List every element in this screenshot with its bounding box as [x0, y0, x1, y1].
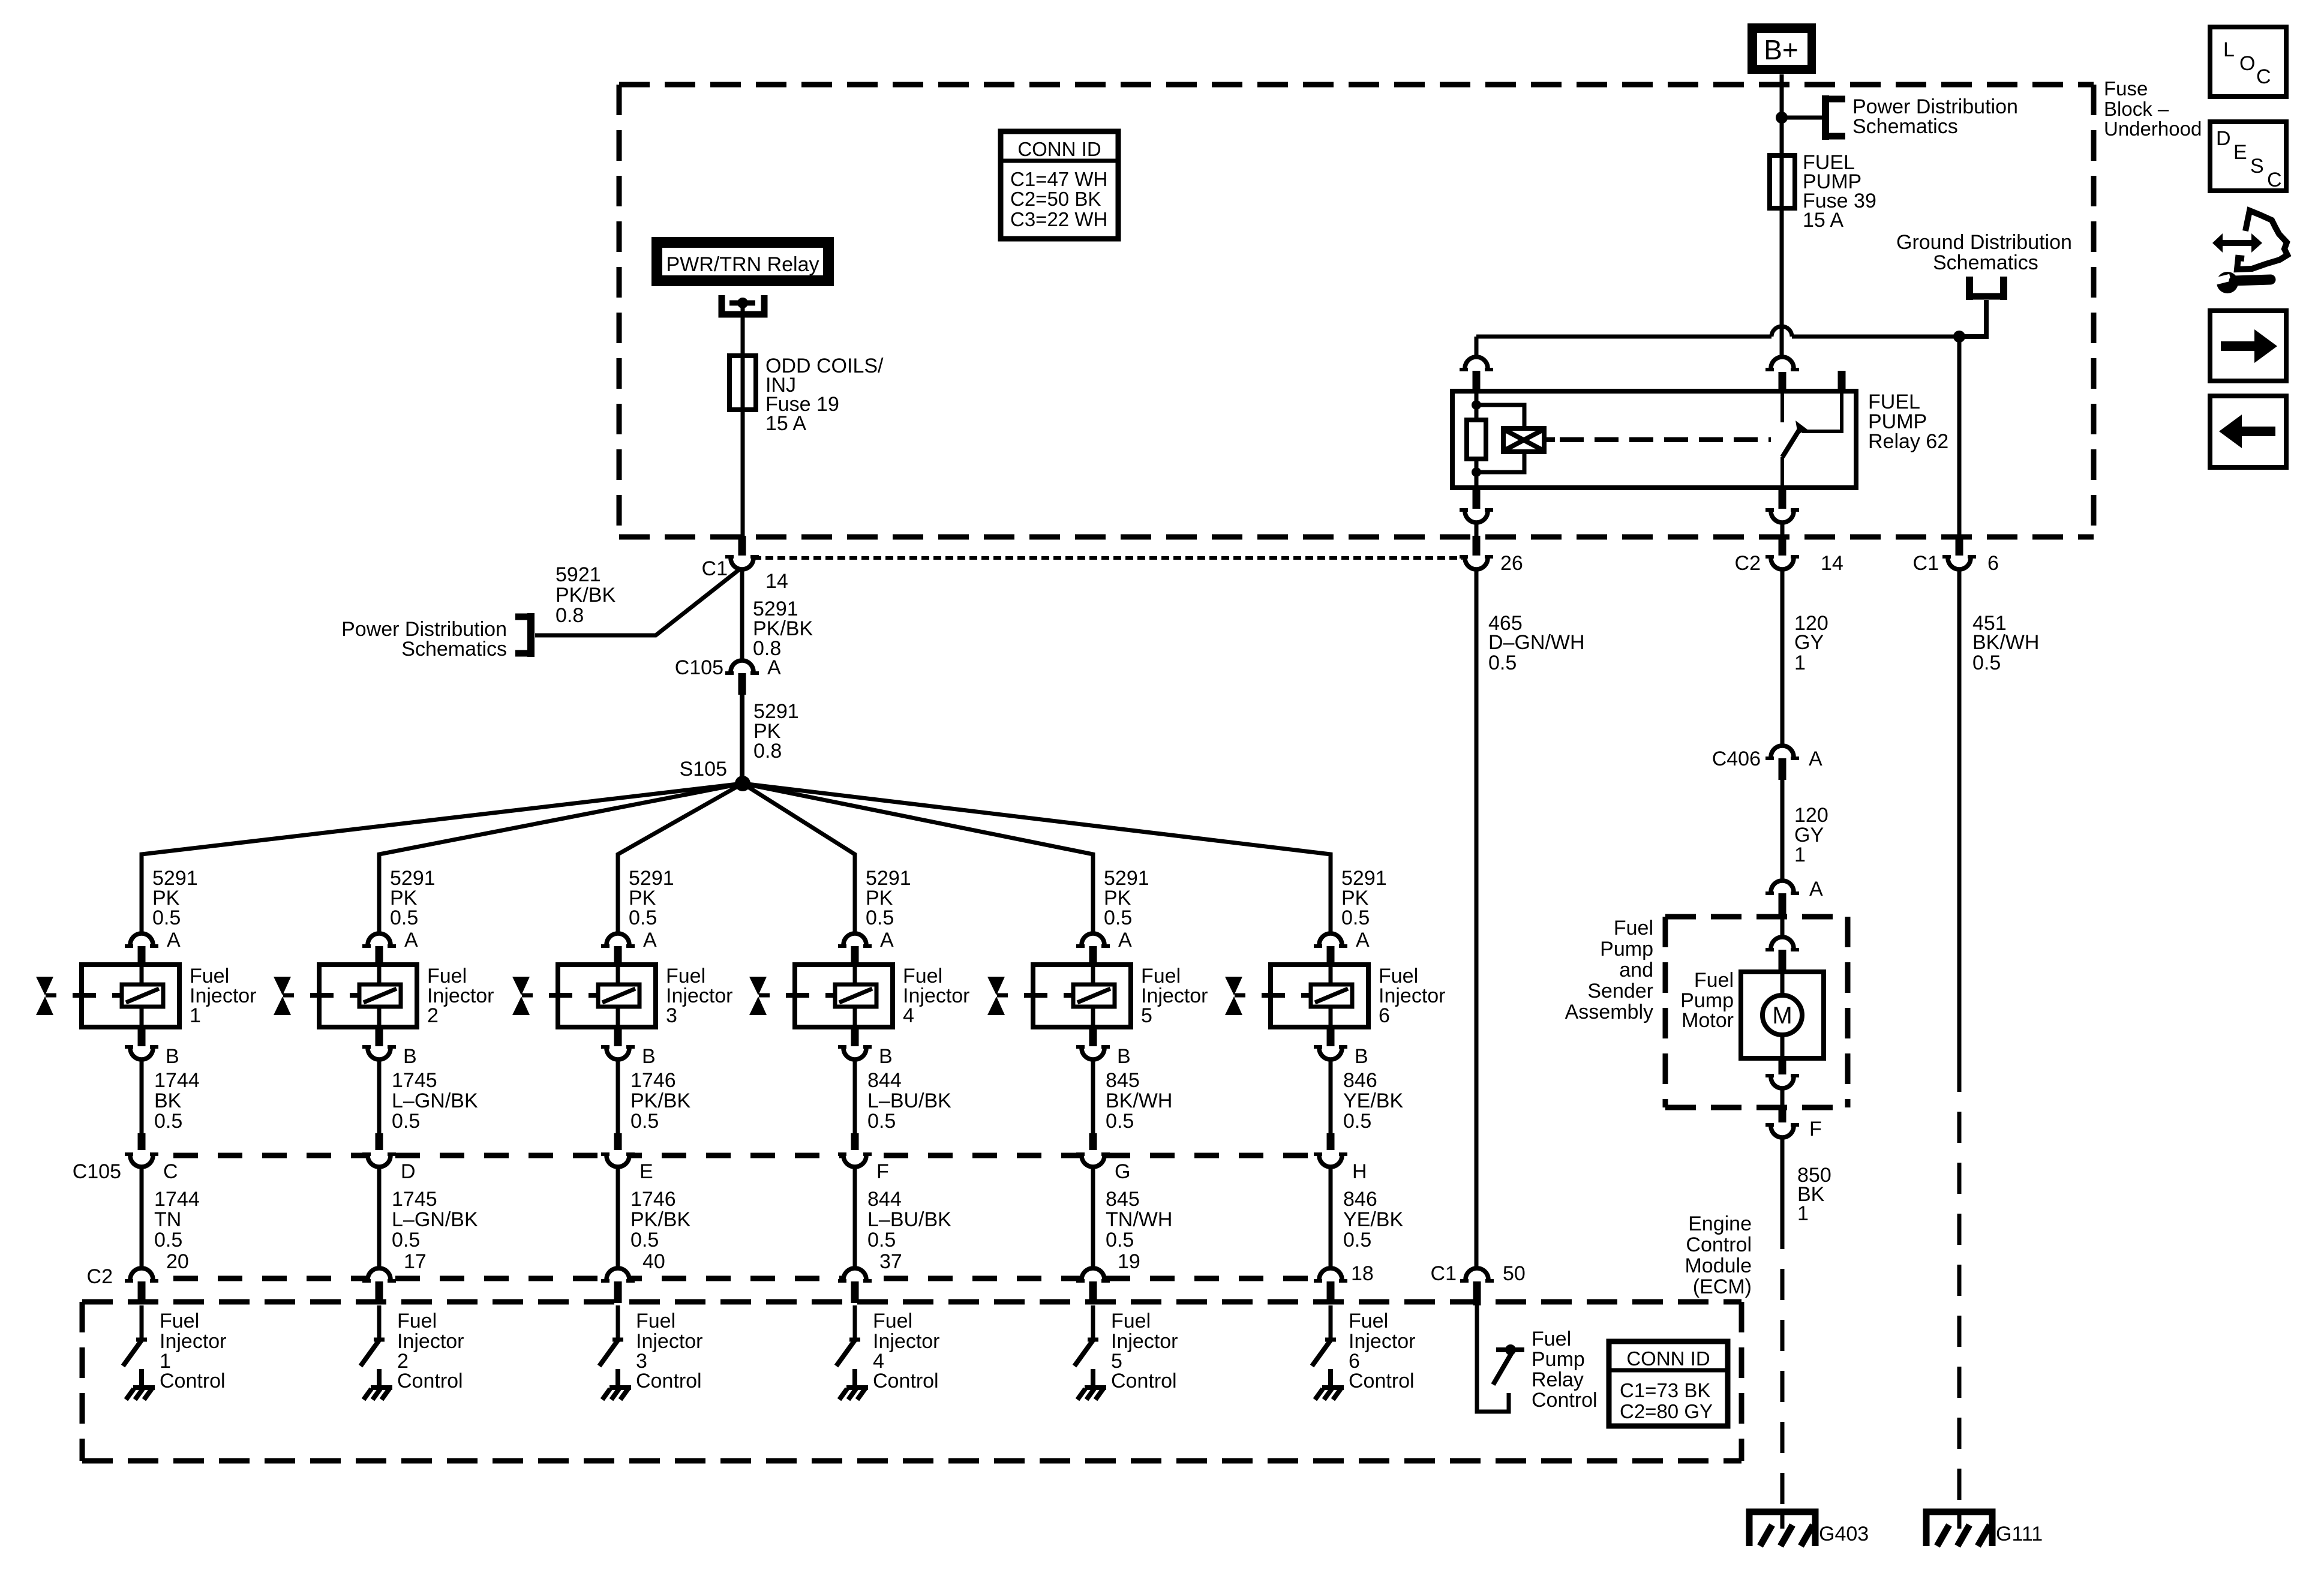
relay socket terminal below (coil ground): [1460, 510, 1493, 523]
motor M symbol: [1762, 974, 1802, 1056]
wire 1744 BK 0.5 upper: [140, 1059, 144, 1133]
svg-text:Control: Control: [1532, 1389, 1598, 1412]
svg-text:C1: C1: [1431, 1262, 1457, 1285]
switch blade injector 5 control: [1074, 1340, 1098, 1366]
svg-text:1746: 1746: [630, 1188, 676, 1211]
svg-text:5: 5: [1141, 1004, 1152, 1027]
svg-text:0.8: 0.8: [753, 740, 782, 763]
svg-text:BK/WH: BK/WH: [1106, 1089, 1172, 1112]
switch blade injector 6 control: [1312, 1340, 1336, 1366]
injector nozzle valve symbol 1: [36, 977, 56, 1015]
label wire 1746 PK/BK 0.5: [630, 1069, 690, 1133]
PWR/TRN relay output terminal: [722, 295, 764, 314]
svg-text:F: F: [1809, 1118, 1822, 1140]
svg-text:Pump: Pump: [1600, 938, 1653, 960]
svg-text:50: 50: [1503, 1262, 1526, 1285]
pin C1-6 male: [1956, 536, 1963, 556]
label C1 / pin 6: [1913, 552, 1999, 575]
label Fuse Block - Underhood: [2104, 77, 2202, 140]
svg-text:A: A: [1356, 929, 1370, 951]
svg-text:G403: G403: [1819, 1523, 1869, 1545]
label ECM pin 40: [642, 1250, 665, 1273]
wire 845 TN/WH 0.5 lower: [1091, 1167, 1095, 1268]
connector C105 pin A dome: [725, 661, 759, 673]
pin C2-18 male into ECM: [1327, 1281, 1335, 1303]
pin B injector 6 male: [1327, 1027, 1335, 1046]
svg-text:L–BU/BK: L–BU/BK: [867, 1089, 951, 1112]
svg-text:G111: G111: [1996, 1523, 2043, 1545]
pin C1-14 male: [738, 536, 746, 556]
svg-text:Engine: Engine: [1688, 1212, 1752, 1235]
wire 850 BK 1 hidden run to G403: [1780, 1218, 1785, 1507]
relay pin (coil ground out): [1473, 488, 1481, 509]
wire 1745 L–GN/BK 0.5 lower: [377, 1167, 382, 1268]
fuse F19 (ODD COILS/INJ): [729, 356, 756, 410]
connector C2 pin 18 dome: [1314, 1268, 1347, 1281]
label Engine Control Module (ECM): [1685, 1212, 1752, 1298]
label C1 / pin 50: [1431, 1262, 1526, 1285]
label wire 1746 PK/BK 0.5: [630, 1188, 690, 1251]
ground (ECM internal) driver 4: [839, 1369, 868, 1400]
svg-text:S: S: [2250, 155, 2264, 178]
wire to power distribution reference: [1782, 116, 1824, 120]
svg-text:846: 846: [1343, 1069, 1377, 1092]
label ECM pin 19: [1118, 1250, 1140, 1273]
svg-text:A: A: [1809, 878, 1823, 900]
wire ECM driver 3: [616, 1305, 620, 1339]
wire S105 branch to injector 5: [743, 784, 1093, 933]
wire 1746 PK/BK 0.5 lower: [616, 1167, 620, 1268]
svg-text:TN: TN: [154, 1208, 181, 1231]
svg-text:4: 4: [903, 1004, 914, 1027]
wire PWR/TRN relay to Fuse 19: [741, 303, 745, 356]
relay pin (coil feed): [1473, 371, 1481, 393]
label Fuel Injector 4: [903, 965, 970, 1027]
svg-text:0.5: 0.5: [1106, 1229, 1134, 1251]
switch blade injector 2 control: [361, 1340, 385, 1366]
connector C2 pin 40 dome: [601, 1268, 635, 1281]
fuel injector 5 solenoid: [1024, 965, 1131, 1027]
pin B injector 5 male: [1089, 1027, 1097, 1046]
label C406 / pin A: [1712, 748, 1822, 770]
wire ECM driver 6: [1329, 1305, 1333, 1339]
connector C1 pin 6: [1942, 557, 1976, 569]
svg-text:6: 6: [1379, 1004, 1390, 1027]
pin C105-E male: [614, 1133, 622, 1153]
schematic reference bracket (ground distribution): [1966, 277, 2007, 300]
label Fuel Injector 2: [427, 965, 494, 1027]
label pin B injector 1: [166, 1045, 179, 1068]
fuel pump motor box: [1741, 972, 1824, 1058]
wire relay pin to coil node: [1475, 393, 1479, 405]
label G111: [1996, 1523, 2043, 1545]
wire Fuse 39 to relay pin: [1780, 208, 1784, 357]
label pin A injector 2: [404, 929, 418, 951]
svg-text:0.5: 0.5: [1104, 906, 1132, 929]
connector injector 2 pin B cup: [362, 1047, 396, 1059]
icon button DESC: [2210, 122, 2286, 191]
svg-text:Pump: Pump: [1532, 1348, 1585, 1371]
pin A injector 5 male: [1089, 946, 1097, 965]
svg-text:Fuel: Fuel: [1614, 917, 1653, 939]
label pin A injector 3: [643, 929, 657, 951]
wire 451 BK/WH hidden run to G111: [1957, 1061, 1962, 1507]
svg-text:H: H: [1352, 1160, 1367, 1183]
icon button previous (left arrow): [2210, 396, 2286, 467]
svg-text:E: E: [639, 1160, 653, 1183]
wire relay 86 feed bus: [1476, 335, 1959, 339]
svg-text:3: 3: [666, 1004, 677, 1027]
svg-text:A: A: [167, 929, 181, 951]
svg-text:Fuse: Fuse: [2104, 77, 2148, 100]
ground G403: [1749, 1512, 1815, 1546]
wire S105 branch to injector 3: [618, 784, 743, 933]
label Fuel Pump and Sender Assembly: [1565, 917, 1653, 1023]
label wire 5291 PK 0.5 (injector 2): [390, 867, 436, 929]
injector nozzle valve symbol 6: [1225, 977, 1245, 1015]
pin B injector 4 male: [851, 1027, 859, 1046]
connector C2 pin 14: [1765, 557, 1799, 569]
svg-text:C: C: [163, 1160, 178, 1183]
label Fuel Injector 1: [190, 965, 257, 1027]
pin A injector 1 male: [138, 946, 146, 965]
wire motor return: [1780, 1088, 1785, 1106]
svg-text:B: B: [166, 1045, 179, 1068]
wire junction to Fuse 39: [1780, 118, 1784, 155]
svg-text:Fuel: Fuel: [160, 1310, 199, 1332]
connector C105 dashed boundary row: [129, 1153, 1320, 1158]
icon vehicle with arrow and wrench: [2212, 211, 2287, 293]
driver internal node: [1496, 1344, 1524, 1355]
label wire 5291 PK 0.5 (injector 4): [866, 867, 911, 929]
svg-text:D: D: [2216, 127, 2231, 150]
svg-text:844: 844: [867, 1188, 902, 1211]
relay pin (switched output): [1779, 488, 1786, 509]
relay box PWR/TRN Relay: [651, 237, 834, 286]
wire 465 D-GN/WH 0.5: [1475, 569, 1479, 1268]
label G403: [1819, 1523, 1869, 1545]
ground (ECM internal) driver 3: [602, 1369, 631, 1400]
connector injector 3 pin A dome: [601, 933, 635, 946]
svg-text:14: 14: [765, 570, 788, 593]
relay switch blade: [1782, 421, 1807, 457]
wire 1744 TN 0.5 lower: [140, 1167, 144, 1268]
label C105 (row): [73, 1160, 121, 1183]
label C105 / pin A: [675, 656, 781, 679]
svg-text:C406: C406: [1712, 748, 1761, 770]
label ECM pin 37: [879, 1250, 902, 1273]
svg-text:Schematics: Schematics: [1933, 251, 2038, 274]
wire 1745 L–GN/BK 0.5 upper: [377, 1059, 382, 1133]
svg-text:Control: Control: [160, 1370, 226, 1392]
svg-text:14: 14: [1821, 552, 1843, 575]
pin B injector 2 male: [376, 1027, 383, 1046]
svg-text:Fuel: Fuel: [1349, 1310, 1388, 1332]
wire assembly internal feed: [1780, 918, 1785, 937]
pin C1-50 male into ECM: [1473, 1281, 1481, 1305]
wire 5291 PK 0.8: [740, 695, 744, 776]
connector fuel pump pin F cup: [1765, 1125, 1799, 1137]
svg-text:20: 20: [166, 1250, 189, 1273]
pin C105-F male: [851, 1133, 859, 1153]
connector injector 4 pin B cup: [838, 1047, 872, 1059]
svg-text:1744: 1744: [154, 1188, 200, 1211]
label wire 845 BK/WH 0.5: [1106, 1069, 1172, 1133]
svg-text:L–GN/BK: L–GN/BK: [392, 1089, 478, 1112]
label wire 465 D-GN/WH 0.5: [1488, 612, 1585, 674]
relay pin (N.O. contact): [1838, 371, 1846, 393]
svg-text:O: O: [2239, 52, 2255, 75]
label wire 120 GY 1 (lower): [1794, 804, 1828, 866]
svg-text:0.5: 0.5: [867, 1110, 896, 1133]
wire 1746 PK/BK 0.5 upper: [616, 1059, 620, 1133]
svg-text:CONN ID: CONN ID: [1626, 1347, 1710, 1370]
svg-text:A: A: [880, 929, 894, 951]
connector C105 pin F cup: [838, 1154, 872, 1167]
wire B+ to junction: [1780, 74, 1784, 117]
fuel injector 2 solenoid: [310, 965, 417, 1027]
svg-text:845: 845: [1106, 1069, 1140, 1092]
svg-text:Schematics: Schematics: [401, 638, 507, 661]
svg-text:S105: S105: [680, 758, 727, 781]
svg-text:Fuel: Fuel: [1694, 969, 1734, 992]
svg-text:0.8: 0.8: [556, 604, 584, 627]
svg-text:Fuel: Fuel: [873, 1310, 912, 1332]
wire fuel pump relay control driver: [1477, 1305, 1509, 1412]
connector pump motor bottom cup: [1765, 1076, 1799, 1088]
svg-text:and: and: [1619, 959, 1653, 981]
label Fuel Injector 5 Control: [1111, 1310, 1178, 1392]
schematic reference bracket (left power distribution): [515, 613, 531, 657]
label wire 5291 PK 0.5 (injector 3): [629, 867, 674, 929]
label pin B injector 5: [1117, 1045, 1131, 1068]
label pin B injector 6: [1355, 1045, 1368, 1068]
svg-text:YE/BK: YE/BK: [1343, 1089, 1403, 1112]
wire 846 YE/BK 0.5 upper: [1329, 1059, 1333, 1133]
label wire 451 BK/WH 0.5: [1972, 612, 2039, 674]
wire ECM driver 5: [1091, 1305, 1095, 1339]
wire 844 L–BU/BK 0.5 upper: [853, 1059, 857, 1133]
label pin A injector 4: [880, 929, 894, 951]
pin B injector 1 male: [138, 1027, 146, 1046]
connector fuel pump pin A dome: [1765, 881, 1799, 893]
connector injector 6 pin B cup: [1314, 1047, 1347, 1059]
label pin G: [1115, 1160, 1130, 1183]
svg-text:0.5: 0.5: [1488, 652, 1517, 674]
connector injector 4 pin A dome: [838, 933, 872, 946]
svg-text:0.5: 0.5: [630, 1110, 659, 1133]
table CONN ID ECM (C1=73 BK, C2=80 GY): [1609, 1341, 1728, 1426]
svg-text:Control: Control: [636, 1370, 702, 1392]
splice S105: [735, 776, 750, 791]
wire 844 L–BU/BK 0.5 lower: [853, 1167, 857, 1268]
wire bus corner down to relay pin: [1475, 337, 1479, 357]
wire 120 GY 1 lower: [1780, 780, 1785, 881]
svg-text:Control: Control: [397, 1370, 463, 1392]
svg-text:(ECM): (ECM): [1693, 1275, 1752, 1298]
fuel pump and sender assembly dashed outline: [1665, 917, 1848, 1107]
label Fuel Injector 2 Control: [397, 1310, 464, 1392]
pin A injector 6 male: [1327, 946, 1335, 965]
wire 850 BK 1: [1780, 1137, 1785, 1218]
svg-text:0.5: 0.5: [866, 906, 894, 929]
switch blade fuel pump relay control: [1493, 1353, 1512, 1385]
label pin A fuel pump: [1809, 878, 1823, 900]
svg-text:0.5: 0.5: [1972, 652, 2001, 674]
label pin F: [876, 1160, 889, 1183]
svg-text:Sender: Sender: [1587, 980, 1653, 1002]
icon button LOC: [2210, 27, 2286, 97]
wire S105 branch to injector 1: [142, 784, 743, 933]
pin C105-H male: [1327, 1133, 1335, 1153]
wire 846 YE/BK 0.5 lower: [1329, 1167, 1333, 1268]
svg-text:L: L: [2223, 38, 2235, 61]
svg-text:L–BU/BK: L–BU/BK: [867, 1208, 951, 1231]
svg-text:1: 1: [1794, 652, 1806, 674]
fuel injector 1 solenoid: [73, 965, 179, 1027]
connector C2 pin 37 dome: [838, 1268, 872, 1281]
svg-text:D: D: [401, 1160, 416, 1183]
svg-text:A: A: [767, 656, 781, 679]
svg-text:A: A: [404, 929, 418, 951]
svg-text:D–GN/WH: D–GN/WH: [1488, 631, 1585, 654]
connector pump motor dome: [1765, 937, 1799, 950]
svg-text:Motor: Motor: [1682, 1009, 1734, 1032]
svg-text:17: 17: [404, 1250, 427, 1273]
svg-text:0.5: 0.5: [154, 1110, 182, 1133]
pin C1-26 male: [1473, 536, 1481, 556]
schematic reference bracket (power distribution): [1825, 95, 1845, 140]
pin A injector 3 male: [614, 946, 622, 965]
pin C2-40 male into ECM: [614, 1281, 622, 1303]
svg-text:PK/BK: PK/BK: [556, 584, 615, 607]
svg-text:0.5: 0.5: [152, 906, 181, 929]
label pin D: [401, 1160, 416, 1183]
wire 451 BK/WH 0.5: [1957, 569, 1962, 1061]
wire S105 branch to injector 6: [743, 784, 1331, 933]
label C1 / pin 14: [702, 557, 788, 593]
svg-text:C105: C105: [675, 656, 723, 679]
relay coil (solenoid symbol): [1503, 428, 1544, 452]
relay pin (common): [1779, 372, 1786, 393]
wire relay output to connector C2-14: [1780, 523, 1785, 536]
svg-text:L–GN/BK: L–GN/BK: [392, 1208, 478, 1231]
label wire 1745 L–GN/BK 0.5: [392, 1069, 478, 1133]
switch blade injector 4 control: [836, 1340, 860, 1366]
relay box FUEL PUMP Relay 62: [1452, 391, 1856, 488]
svg-text:1: 1: [1797, 1202, 1809, 1225]
svg-text:15 A: 15 A: [765, 412, 806, 435]
svg-text:Fuel: Fuel: [1111, 1310, 1151, 1332]
pin A male into assembly: [1779, 893, 1786, 918]
junction node ground distribution tap: [1953, 331, 1965, 343]
label pin B injector 4: [879, 1045, 893, 1068]
svg-text:Block –: Block –: [2104, 98, 2169, 120]
ground (ECM internal) driver 1: [126, 1369, 155, 1400]
fuel injector 4 solenoid: [786, 965, 893, 1027]
label Fuel Pump Motor: [1680, 969, 1734, 1032]
junction node coil bottom: [1472, 467, 1481, 477]
svg-text:C1=73 BK: C1=73 BK: [1620, 1379, 1710, 1401]
svg-text:37: 37: [879, 1250, 902, 1273]
label FUEL PUMP Relay 62: [1868, 391, 1948, 453]
svg-text:0.5: 0.5: [392, 1110, 420, 1133]
wire ECM driver 4: [853, 1305, 857, 1339]
svg-text:F: F: [876, 1160, 889, 1183]
label wire 1745 L–GN/BK 0.5: [392, 1188, 478, 1251]
label ECM pin 20: [166, 1250, 189, 1273]
svg-text:6: 6: [1987, 552, 1999, 575]
pin C105-D male: [376, 1133, 383, 1153]
fuel injector 6 solenoid: [1262, 965, 1368, 1027]
connector C2 pin 17 dome: [362, 1268, 396, 1281]
svg-text:0.5: 0.5: [630, 1229, 659, 1251]
label wire 846 YE/BK 0.5: [1343, 1188, 1403, 1251]
injector nozzle valve symbol 2: [274, 977, 294, 1015]
ECM dashed outline: [82, 1302, 1742, 1461]
label pin A injector 6: [1356, 929, 1370, 951]
wire relay common to switch: [1780, 393, 1784, 422]
resistor (relay coil suppression): [1467, 405, 1486, 472]
connector injector 5 pin A dome: [1076, 933, 1110, 946]
fuse F39 (FUEL PUMP): [1770, 155, 1795, 208]
fuse block - underhood dashed outline: [619, 85, 2094, 537]
wire S105 branch to injector 2: [379, 784, 743, 933]
svg-text:C2: C2: [87, 1265, 113, 1288]
svg-text:15 A: 15 A: [1803, 209, 1843, 232]
svg-text:1744: 1744: [154, 1069, 200, 1092]
svg-text:Relay 62: Relay 62: [1868, 430, 1948, 453]
svg-text:B: B: [1355, 1045, 1368, 1068]
wire 5291 PK/BK 0.8: [740, 569, 744, 661]
connector C2 pin 19 dome: [1076, 1268, 1110, 1281]
pin C105-G male: [1089, 1133, 1097, 1153]
pin pump motor male: [1779, 950, 1786, 972]
svg-text:19: 19: [1118, 1250, 1140, 1273]
label wire 844 L–BU/BK 0.5: [867, 1188, 951, 1251]
svg-text:Control: Control: [873, 1370, 939, 1392]
label Fuel Injector 6 Control: [1349, 1310, 1416, 1392]
label ECM pin 17: [404, 1250, 427, 1273]
svg-text:A: A: [1118, 929, 1132, 951]
wire ECM driver 1: [140, 1305, 144, 1339]
relay socket terminal (coil feed): [1460, 357, 1493, 370]
junction node B+ tap: [1776, 112, 1788, 124]
connector injector 5 pin B cup: [1076, 1047, 1110, 1059]
svg-text:C2=80 GY: C2=80 GY: [1620, 1400, 1713, 1422]
svg-text:C3=22 WH: C3=22 WH: [1010, 208, 1107, 230]
pin C2-14 male: [1779, 536, 1786, 556]
label Fuel Injector 3 Control: [636, 1310, 703, 1392]
wire 845 BK/WH 0.5 upper: [1091, 1059, 1095, 1133]
svg-text:Control: Control: [1349, 1370, 1415, 1392]
svg-text:M: M: [1772, 1002, 1792, 1029]
wire ground reference to junction: [1959, 300, 1986, 337]
label wire 5291 PK 0.5 (injector 5): [1104, 867, 1149, 929]
label FUEL PUMP Fuse 39 15 A: [1803, 151, 1876, 232]
label pin C: [163, 1160, 178, 1183]
connector injector 3 pin B cup: [601, 1047, 635, 1059]
pin F male: [1779, 1106, 1786, 1122]
svg-text:Assembly: Assembly: [1565, 1001, 1653, 1023]
svg-text:B: B: [403, 1045, 417, 1068]
svg-text:B: B: [879, 1045, 893, 1068]
wire Fuse 19 to connector C1: [741, 410, 745, 536]
connector C105 pin E cup: [601, 1154, 635, 1167]
svg-text:1: 1: [1794, 843, 1806, 866]
relay socket terminal below (output): [1765, 510, 1799, 523]
ground (ECM internal) driver 6: [1315, 1369, 1344, 1400]
